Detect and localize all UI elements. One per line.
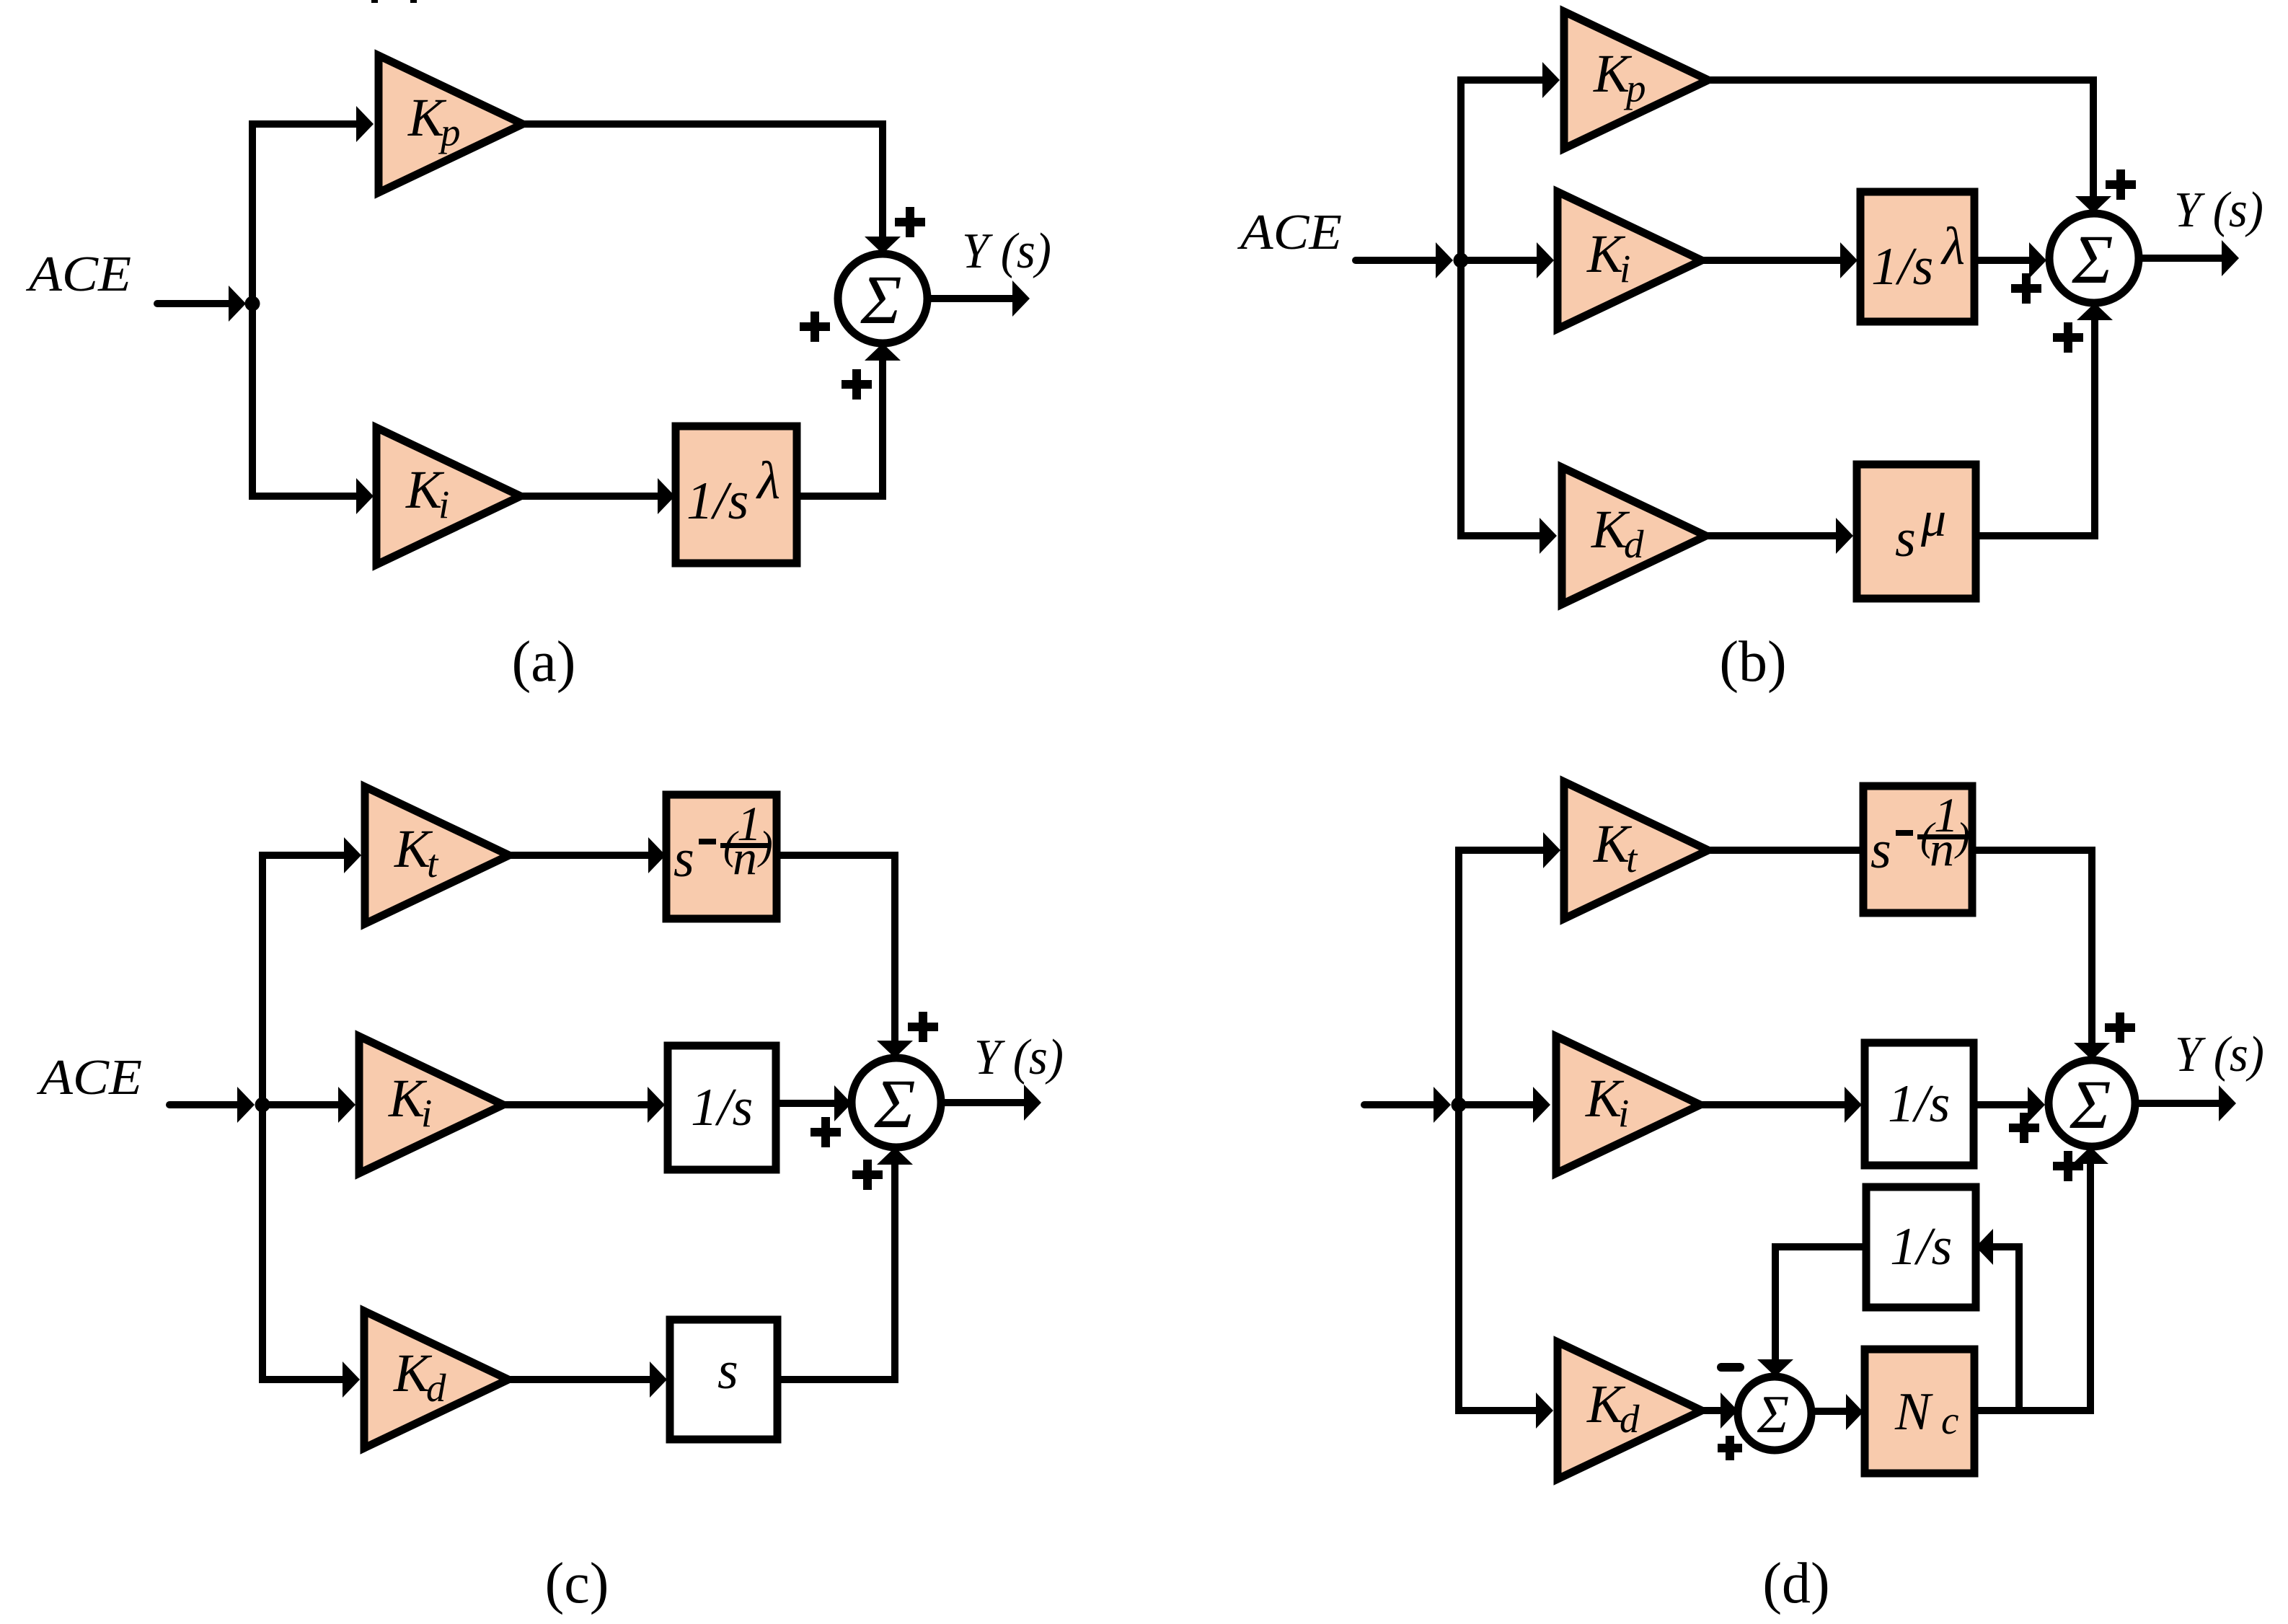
plus top (a) [895, 207, 925, 237]
wire feedback up to 1/s (d) [1993, 1247, 2019, 1411]
wire fractional block to summer (d) [1972, 850, 2092, 1044]
plus left (d) [2009, 1113, 2039, 1143]
gain Kp (a) [379, 56, 523, 193]
summing junction main (d) [2049, 1060, 2135, 1147]
arrowhead into Ki (c) [338, 1087, 355, 1123]
node branch point (d) [1452, 1098, 1467, 1113]
arrowhead into summer left (b) [2029, 242, 2046, 278]
svg-text:i: i [421, 1091, 432, 1135]
plus top (c) [908, 1012, 938, 1042]
arrowhead into summer bottom (b) [2077, 303, 2113, 320]
wire integrator to summer (c) [776, 1100, 834, 1107]
svg-text:(d): (d) [1762, 1552, 1829, 1615]
svg-text:Σ: Σ [2071, 221, 2113, 298]
wire Ki to integrator (c) [503, 1101, 648, 1108]
plus left (b) [2011, 273, 2041, 304]
arrowhead into summer bottom (a) [865, 343, 901, 361]
svg-text:Y (s): Y (s) [2175, 1027, 2264, 1082]
svg-text:s: s [1895, 509, 1916, 568]
block s (c) [670, 1320, 777, 1439]
arrowhead into summer left (d) [2028, 1087, 2045, 1123]
gain Ki (a) [376, 428, 521, 565]
wire Ki to integrator (d) [1700, 1101, 1845, 1108]
svg-text:c: c [1941, 1398, 1958, 1442]
summing junction (c) [852, 1058, 941, 1147]
wire Kd to small summer (d) [1702, 1407, 1721, 1414]
wire to Kd (b) [1457, 532, 1540, 539]
svg-text:Y (s): Y (s) [962, 224, 1051, 279]
arrowhead into small summer (d) [1721, 1393, 1738, 1429]
svg-text:Y (s): Y (s) [2174, 182, 2263, 238]
svg-text:Y (s): Y (s) [974, 1030, 1064, 1085]
node branch point (a) [245, 296, 260, 312]
wire to Ki (c) [262, 1101, 338, 1108]
cropped mark top edge left [371, 0, 378, 3]
svg-text:1/s: 1/s [691, 1078, 753, 1137]
wire fractional block to summer (c) [777, 855, 895, 1042]
wire ACE input (a) [157, 300, 229, 307]
plus bottom (a) [842, 369, 872, 400]
arrowhead into Nc (d) [1846, 1394, 1863, 1430]
svg-text:t: t [1626, 837, 1638, 881]
svg-text:): ) [1954, 815, 1970, 860]
wire Nc output to main summer (d) [1974, 1164, 2090, 1411]
arrowhead output (d) [2219, 1085, 2236, 1121]
wire integrator to summer (b) [1974, 257, 2029, 264]
svg-text:λ: λ [756, 451, 780, 511]
output label Y(s) (d) [2175, 1027, 2264, 1082]
gain Kd (d) [1558, 1342, 1702, 1479]
svg-text:1/s: 1/s [1890, 1217, 1952, 1276]
svg-text:(a): (a) [512, 630, 576, 694]
svg-text:n: n [1930, 821, 1954, 876]
wire branch vertical (c) [259, 855, 266, 1380]
gain Kd (c) [364, 1311, 508, 1448]
gain Ki (b) [1558, 192, 1702, 329]
arrowhead into Kt (c) [344, 837, 361, 873]
gain Ki (c) [359, 1036, 503, 1173]
wire Kd to derivative (c) [508, 1376, 650, 1383]
svg-text:ACE: ACE [1237, 205, 1342, 260]
arrowhead into small summer top (d) [1757, 1359, 1793, 1377]
input label ACE (a) [26, 247, 131, 302]
plus top (d) [2105, 1012, 2135, 1043]
svg-text:p: p [1623, 66, 1646, 110]
block 1/s (d) [1865, 1043, 1974, 1165]
plus small summer (d) [1718, 1436, 1742, 1460]
svg-text:d: d [1620, 1397, 1640, 1441]
arrowhead into Ki (b) [1537, 242, 1554, 278]
plus bottom (b) [2053, 322, 2083, 353]
svg-text:s: s [673, 829, 694, 888]
caption (c) [545, 1552, 609, 1615]
svg-text:d: d [1624, 522, 1644, 566]
wire output (c) [941, 1099, 1024, 1106]
arrowhead into 1/s (c) [648, 1087, 665, 1123]
wire ACE input (b) [1356, 257, 1436, 264]
svg-text:μ: μ [1920, 492, 1946, 547]
svg-text:N: N [1894, 1382, 1933, 1442]
arrowhead into summer top (b) [2075, 196, 2111, 213]
arrowhead into Kd (b) [1540, 518, 1557, 554]
arrowhead into node (b) [1436, 242, 1453, 278]
arrowhead into 1/s^lambda (b) [1840, 242, 1858, 278]
wire Ki to integrator (b) [1702, 257, 1840, 264]
arrowhead into summer top (a) [865, 237, 901, 254]
svg-text:i: i [1618, 1091, 1629, 1135]
arrowhead into Ki (a) [356, 478, 374, 514]
arrowhead into Ki (d) [1533, 1087, 1550, 1123]
wire derivative to summer (c) [777, 1165, 895, 1380]
block s^-(1/n) (c) [666, 795, 777, 919]
summing junction (b) [2049, 213, 2139, 303]
arrowhead output (a) [1012, 281, 1030, 317]
svg-text:i: i [1620, 247, 1630, 291]
arrowhead into Kd (c) [343, 1362, 360, 1398]
wire Kt to fractional block (d) [1708, 847, 1863, 854]
gain Kt (c) [365, 787, 509, 924]
block feedback 1/s (d) [1866, 1187, 1976, 1307]
arrowhead into feedback 1/s (d) [1976, 1229, 1993, 1265]
svg-text:Σ: Σ [2069, 1066, 2111, 1143]
arrowhead into 1/s (d) [1845, 1087, 1862, 1123]
wire Kp output to summer (b) [1708, 80, 2093, 198]
block s^mu (b) [1857, 464, 1976, 599]
arrowhead into summer top (d) [2074, 1043, 2110, 1060]
wire to Ki (a) [249, 493, 356, 500]
arrowhead into main summer bottom (d) [2072, 1147, 2108, 1164]
svg-text:): ) [757, 824, 773, 868]
arrowhead into node (a) [229, 286, 246, 322]
minus sign small summer (d) [1717, 1363, 1744, 1372]
block 1/s (c) [668, 1046, 776, 1170]
plus bottom (d) [2053, 1151, 2083, 1181]
arrowhead into Kt (d) [1543, 832, 1560, 868]
caption (d) [1762, 1552, 1829, 1615]
wire feedback 1/s to small summer (d) [1775, 1247, 1866, 1359]
wire small summer to Nc (d) [1811, 1408, 1846, 1415]
svg-text:i: i [438, 482, 449, 526]
caption (a) [512, 630, 576, 694]
arrowhead into s^mu (b) [1836, 518, 1853, 554]
plus left (a) [800, 312, 830, 342]
wire to Kd (d) [1455, 1407, 1536, 1414]
svg-text:p: p [438, 110, 461, 154]
svg-text:1/s: 1/s [1888, 1074, 1950, 1134]
summing junction (a) [838, 254, 927, 343]
svg-text:s: s [1870, 821, 1891, 880]
plus top (b) [2106, 169, 2136, 200]
svg-text:ACE: ACE [37, 1050, 142, 1106]
gain Kt (d) [1564, 782, 1708, 919]
svg-text:Σ: Σ [860, 261, 901, 338]
output label Y(s) (b) [2174, 182, 2263, 238]
wire to Ki (b) [1461, 257, 1537, 264]
caption (b) [1719, 630, 1786, 694]
wire output (a) [927, 295, 1012, 302]
arrowhead into summer top (c) [877, 1041, 913, 1058]
gain Kd (b) [1562, 467, 1706, 604]
svg-text:Σ: Σ [873, 1065, 915, 1142]
wire output (d) [2135, 1100, 2219, 1107]
svg-text:1/s: 1/s [686, 472, 748, 531]
arrowhead into node (d) [1434, 1087, 1451, 1123]
svg-text:d: d [426, 1366, 446, 1410]
svg-text:(b): (b) [1719, 630, 1786, 694]
wire integrator to summer (d) [1974, 1101, 2028, 1108]
svg-text:1/s: 1/s [1871, 237, 1933, 296]
block Nc (d) [1865, 1349, 1974, 1473]
arrowhead into s^-(1/n) (c) [648, 837, 666, 873]
wire output (b) [2139, 255, 2222, 262]
svg-text:(c): (c) [545, 1552, 609, 1615]
block 1/s^lambda (b) [1860, 192, 1974, 322]
arrowhead into node (c) [237, 1087, 255, 1123]
wire to Kd (c) [259, 1376, 343, 1383]
arrowhead into summer left (c) [834, 1085, 852, 1121]
block s^-(1/n) (d) [1863, 786, 1972, 913]
node branch point (b) [1454, 253, 1469, 268]
input label ACE (b) [1237, 205, 1342, 260]
arrowhead into Kp (a) [356, 106, 374, 142]
wire branch vertical (b) [1457, 80, 1465, 536]
block 1/s^lambda (a) [676, 426, 797, 563]
wire ACE input (c) [169, 1101, 237, 1108]
wire integrator to summer (a) [797, 361, 883, 496]
gain Ki (d) [1556, 1036, 1700, 1173]
wire to Ki (d) [1455, 1101, 1533, 1108]
plus bottom (c) [852, 1160, 883, 1190]
output label Y(s) (c) [974, 1030, 1064, 1085]
svg-text:λ: λ [1940, 217, 1965, 276]
wire to Kt (c) [259, 852, 344, 859]
arrowhead output (c) [1024, 1085, 1041, 1121]
wire Kd to derivative (b) [1706, 532, 1836, 539]
arrowhead into s block (c) [650, 1362, 667, 1398]
arrowhead into Kd (d) [1536, 1393, 1553, 1429]
wire to Kp (b) [1457, 76, 1542, 84]
wire Kp output to summer (a) [523, 124, 883, 238]
svg-text:n: n [733, 830, 757, 885]
wire derivative to summer (b) [1976, 320, 2095, 536]
node branch point (c) [255, 1098, 270, 1113]
wire Kt to fractional block (c) [509, 852, 648, 859]
svg-text:Σ: Σ [1757, 1385, 1789, 1444]
input label ACE (c) [37, 1050, 142, 1106]
gain Kp (b) [1564, 12, 1708, 149]
svg-text:s: s [717, 1341, 738, 1400]
wire branch vertical (a) [249, 124, 256, 496]
arrowhead into Kp (b) [1542, 62, 1560, 98]
cropped mark top edge right [410, 0, 417, 3]
wire branch vertical (d) [1455, 850, 1462, 1411]
plus left (c) [810, 1117, 841, 1147]
svg-text:ACE: ACE [26, 247, 131, 302]
wire to Kt (d) [1455, 847, 1543, 854]
output label Y(s) (a) [962, 224, 1051, 279]
arrowhead output (b) [2222, 240, 2239, 276]
svg-text:t: t [427, 842, 439, 886]
wire input (d) [1364, 1101, 1434, 1108]
summing junction derivative filter (d) [1738, 1377, 1811, 1450]
arrowhead into summer bottom (c) [877, 1147, 913, 1165]
wire Ki to integrator (a) [521, 493, 658, 500]
arrowhead into 1/s^lambda (a) [658, 478, 675, 514]
wire to Kp (a) [249, 120, 356, 128]
